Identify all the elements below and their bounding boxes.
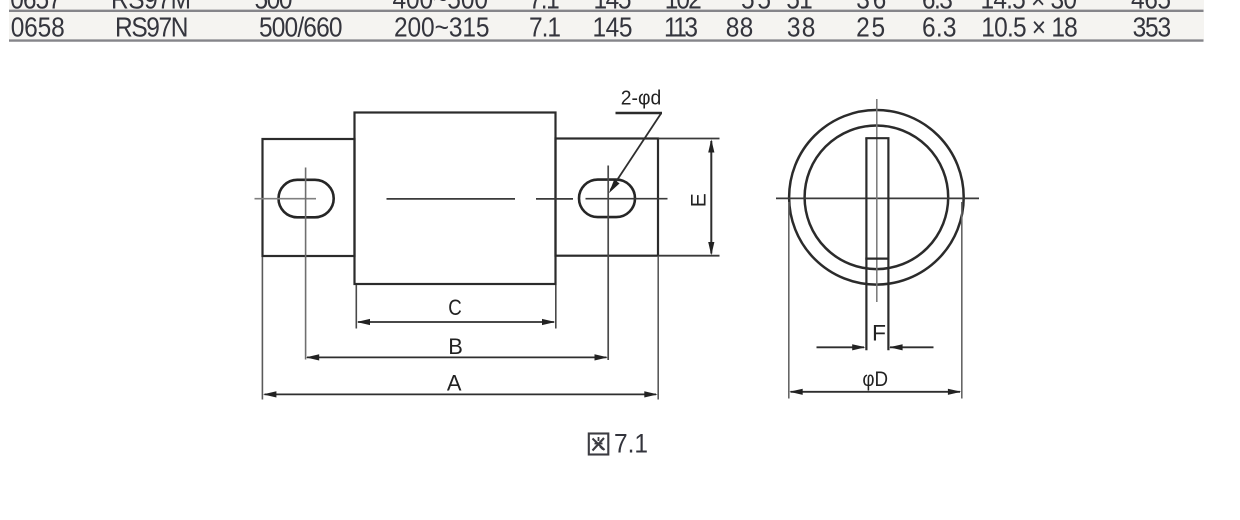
E extension line top — [658, 138, 720, 140]
phiD extension right — [961, 202, 963, 399]
A extension left — [261, 257, 263, 400]
left slot (obround hole) — [279, 180, 334, 218]
phiD extension left — [788, 202, 790, 399]
B dimension line — [307, 356, 607, 358]
svg-text:200~315: 200~315 — [394, 11, 490, 43]
table row 0658 — [11, 11, 1171, 43]
left slot vertical centerline / B extension — [305, 168, 307, 360]
phiD dimension line — [791, 391, 961, 393]
C arrow left — [357, 319, 370, 325]
horizontal centerline segment through right slot — [586, 198, 668, 200]
vertical centerline — [876, 99, 878, 302]
2-phi-d underline — [616, 112, 663, 114]
E dimension line — [710, 141, 712, 254]
A arrow right — [644, 391, 657, 397]
slot right edge / F extension — [887, 138, 889, 350]
B arrow right — [595, 354, 608, 360]
svg-text:25: 25 — [856, 11, 885, 43]
svg-text:88: 88 — [726, 11, 754, 43]
svg-text:2-φd: 2-φd — [621, 87, 662, 109]
phiD arrow left — [789, 389, 802, 395]
horizontal centerline short dash at body right edge — [536, 198, 573, 200]
svg-text:0658: 0658 — [11, 11, 65, 43]
horizontal centerline long dash in body — [387, 198, 516, 200]
F dimension line right — [890, 346, 934, 348]
2-phi-d leader arrowhead — [609, 180, 620, 194]
slot left edge / F extension — [865, 138, 867, 350]
table bottom line (under row 0658) — [9, 39, 1204, 41]
caption: hanzi TU (figure) drawn glyph — [589, 434, 609, 455]
C dimension line — [358, 321, 554, 323]
svg-text:RS97N: RS97N — [115, 11, 189, 43]
svg-text:38: 38 — [787, 11, 816, 43]
right slot vertical centerline / B extension — [607, 166, 609, 361]
E arrow down — [708, 242, 714, 255]
fuse body rectangle — [355, 113, 556, 285]
right mounting tab — [556, 139, 659, 256]
C extension left — [355, 285, 357, 329]
F arrow left pointing right — [852, 344, 865, 350]
E extension line bottom — [658, 255, 720, 257]
A arrow left — [263, 391, 276, 397]
svg-text:500/660: 500/660 — [259, 11, 343, 43]
svg-text:A: A — [447, 371, 462, 395]
E arrow up — [708, 139, 714, 152]
svg-text:113: 113 — [664, 11, 698, 43]
A extension right — [657, 257, 659, 400]
svg-text:7.1: 7.1 — [614, 429, 648, 458]
2-phi-d leader line — [611, 114, 662, 191]
right slot (obround hole) — [579, 180, 635, 218]
svg-text:7.1: 7.1 — [529, 11, 561, 43]
F dimension line left — [817, 346, 865, 348]
svg-text:353: 353 — [1133, 11, 1172, 43]
A dimension line — [265, 393, 657, 395]
outer circle — [789, 110, 964, 285]
svg-text:6.3: 6.3 — [922, 11, 957, 43]
B arrow left — [306, 354, 319, 360]
horizontal centerline segment through left slot — [255, 198, 317, 200]
svg-text:φD: φD — [862, 367, 888, 391]
svg-text:F: F — [872, 322, 886, 346]
table background band — [9, 0, 1204, 41]
slot bottom tick — [865, 258, 889, 260]
table row separator line (under row 0657) — [9, 10, 1204, 12]
svg-text:E: E — [688, 193, 711, 207]
C arrow right — [542, 319, 555, 325]
svg-text:10.5 × 18: 10.5 × 18 — [981, 11, 1078, 43]
F arrow right pointing left — [889, 344, 902, 350]
horizontal centerline — [776, 197, 979, 199]
svg-text:145: 145 — [593, 11, 633, 43]
table row 0657 (clipped at top of page) — [10, 0, 1171, 15]
svg-text:B: B — [448, 335, 463, 359]
C extension right — [555, 285, 557, 329]
slot top edge — [865, 137, 889, 139]
left mounting tab — [263, 139, 355, 256]
inner circle — [805, 126, 949, 270]
svg-text:C: C — [448, 296, 462, 320]
phiD arrow right — [948, 389, 961, 395]
